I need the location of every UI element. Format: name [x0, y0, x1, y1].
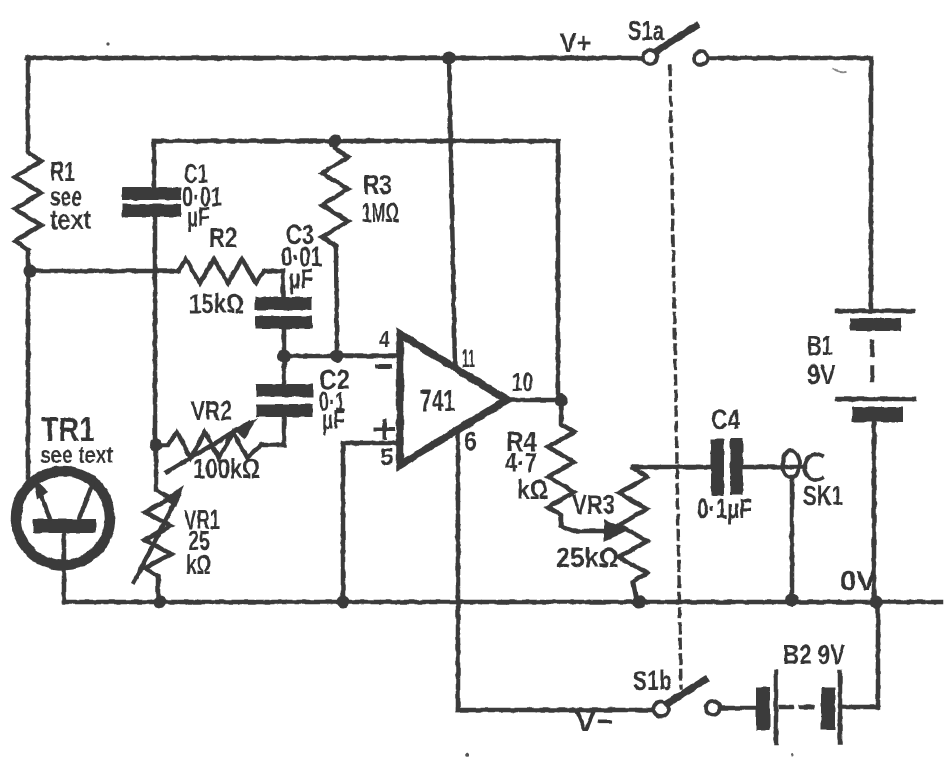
capacitor C2: [261, 356, 284, 445]
transistor TR1: [16, 471, 110, 565]
svg-text:B2 9V: B2 9V: [783, 639, 845, 670]
svg-text:100kΩ: 100kΩ: [193, 453, 260, 484]
capacitor C1: [154, 141, 155, 445]
svg-text:VR3: VR3: [572, 489, 615, 520]
node VR2/VR1 junction: [150, 439, 163, 452]
speck: [791, 754, 794, 757]
wire 0V rail: [64, 600, 941, 605]
wire V-: [458, 708, 652, 713]
node SK1 ground: [786, 594, 799, 607]
node V+ supply tap: [443, 52, 456, 65]
svg-text:10: 10: [512, 367, 533, 397]
node VR3 bottom: [633, 596, 646, 609]
svg-text:C4: C4: [711, 404, 740, 435]
svg-text:1MΩ: 1MΩ: [362, 197, 399, 228]
battery B2: [720, 706, 756, 711]
socket SK1: [783, 451, 800, 478]
svg-text:15kΩ: 15kΩ: [189, 288, 244, 319]
wiper arrow R4 to VR3: [561, 526, 608, 531]
svg-text:kΩ: kΩ: [517, 474, 548, 505]
node pin5 line bottom: [337, 596, 350, 609]
capacitor C3: [283, 271, 284, 356]
svg-text:S1b: S1b: [633, 665, 672, 696]
svg-text:0V: 0V: [840, 565, 876, 596]
node output: [555, 394, 568, 407]
svg-text:S1a: S1a: [628, 15, 664, 46]
wire SK1 down to 0V: [790, 477, 795, 598]
svg-text:9V: 9V: [807, 359, 836, 390]
svg-text:B1: B1: [807, 330, 833, 361]
svg-text:V−: V−: [575, 706, 614, 737]
svg-text:R3: R3: [363, 169, 392, 200]
node 0V right: [870, 596, 883, 609]
svg-text:11: 11: [462, 345, 475, 373]
svg-text:kΩ: kΩ: [186, 549, 211, 580]
speck: [106, 42, 109, 45]
node junction R1 bottom: [24, 265, 37, 278]
wire inverting input: [284, 354, 401, 359]
wire top V+ rail left: [27, 56, 643, 61]
svg-text:5: 5: [380, 444, 394, 471]
potentiometer VR1: [145, 445, 171, 602]
wire left rail: [26, 58, 31, 478]
svg-text:µF: µF: [289, 263, 313, 294]
node VR1 bottom: [154, 596, 167, 609]
speck: [833, 69, 845, 72]
svg-text:text: text: [50, 204, 91, 235]
potentiometer VR3: [619, 467, 647, 602]
svg-text:R2: R2: [209, 222, 237, 253]
node R3 top: [329, 135, 342, 148]
wire feedback down from y=141: [556, 141, 561, 398]
svg-text:4: 4: [379, 326, 390, 352]
wire VR3 top to C4: [633, 465, 711, 470]
battery B1: [837, 309, 913, 314]
dashed mechanical link S1: [670, 66, 681, 688]
switch S1b: [654, 702, 669, 717]
wire op-amp pin 6 down: [456, 430, 461, 710]
resistor R3: [322, 141, 348, 356]
wire output: [507, 398, 562, 403]
svg-text:see text: see text: [40, 442, 113, 469]
svg-text:µF: µF: [322, 404, 345, 435]
svg-text:µF: µF: [187, 201, 210, 232]
svg-text:741: 741: [420, 383, 455, 418]
svg-text:6: 6: [464, 426, 477, 456]
wire op-amp pin 11 supply: [449, 58, 455, 367]
wire second top rail y=141: [154, 139, 558, 144]
switch S1a: [643, 50, 657, 64]
wire top right: [708, 58, 871, 311]
capacitor C4: [711, 439, 724, 496]
svg-text:25kΩ: 25kΩ: [556, 542, 619, 573]
svg-text:SK1: SK1: [803, 480, 843, 511]
node C3/C2 junction: [278, 350, 291, 363]
svg-text:VR2: VR2: [191, 395, 232, 426]
resistor R2: [178, 259, 283, 283]
svg-text:0·1µF: 0·1µF: [697, 493, 752, 524]
wire non-inverting input: [343, 443, 401, 602]
wire row y=271: [30, 269, 178, 274]
speck: [465, 753, 469, 757]
svg-text:V+: V+: [560, 27, 591, 58]
resistor R4: [548, 400, 574, 526]
op-amp U1 741: [400, 334, 507, 465]
potentiometer VR2: [156, 432, 261, 458]
node R3 bottom: [331, 350, 344, 363]
resistor R1: [15, 152, 41, 250]
